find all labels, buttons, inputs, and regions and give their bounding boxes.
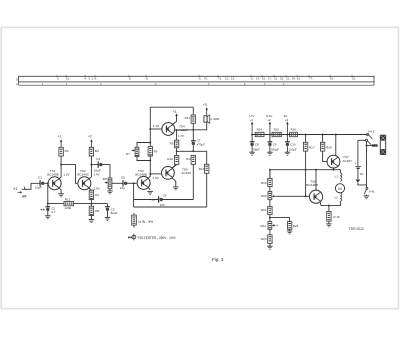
svg-text:K1: K1: [14, 187, 18, 191]
svg-text:L2: L2: [335, 196, 339, 200]
svg-text:K4 2: K4 2: [368, 130, 375, 134]
svg-text:R13: R13: [199, 167, 205, 171]
svg-text:POLYESTER - 250V - 10%: POLYESTER - 250V - 10%: [138, 236, 176, 240]
svg-text:21,: 21,: [286, 77, 290, 81]
svg-text:M: M: [338, 186, 341, 191]
svg-text:15,: 15,: [262, 77, 266, 81]
svg-text:10µ: 10µ: [120, 186, 125, 190]
svg-text:K41: K41: [369, 190, 375, 194]
svg-text:12,: 12,: [225, 77, 229, 81]
svg-text:R16: R16: [291, 128, 297, 132]
svg-text:C8: C8: [255, 143, 259, 147]
svg-text:4.1V: 4.1V: [153, 124, 159, 128]
svg-text:9V: 9V: [360, 172, 364, 176]
svg-text:+: +: [354, 162, 356, 166]
svg-text:R24: R24: [293, 224, 299, 228]
svg-text:4.7: 4.7: [51, 210, 56, 214]
svg-text:15,: 15,: [66, 77, 70, 81]
svg-text:6,: 6,: [199, 77, 202, 81]
svg-text:77,: 77,: [309, 77, 313, 81]
svg-text:AC128: AC128: [181, 171, 191, 175]
svg-text:1.4V: 1.4V: [93, 172, 99, 176]
svg-text:220k: 220k: [65, 206, 72, 210]
svg-text:16,: 16,: [330, 77, 334, 81]
svg-text:1.9V: 1.9V: [153, 176, 159, 180]
svg-text:10µF: 10µF: [94, 168, 101, 172]
svg-text:470µF: 470µF: [197, 142, 205, 146]
svg-text:R23: R23: [261, 237, 267, 241]
svg-text:L1: L1: [335, 174, 339, 178]
svg-text:C6: C6: [163, 193, 167, 197]
svg-text:+1: +1: [250, 118, 254, 122]
svg-text:16,: 16,: [297, 77, 301, 81]
svg-text:R18: R18: [326, 145, 332, 149]
svg-text:R22: R22: [260, 224, 266, 228]
svg-text:R21: R21: [261, 208, 267, 212]
svg-text:+2: +2: [267, 118, 271, 122]
svg-text:8,: 8,: [146, 77, 149, 81]
svg-text:71,: 71,: [218, 77, 222, 81]
svg-text:R17: R17: [309, 145, 315, 149]
svg-text:10µF: 10µF: [35, 186, 42, 190]
svg-text:R7: R7: [126, 152, 130, 156]
svg-text:C10: C10: [290, 143, 296, 147]
svg-text:C9: C9: [273, 143, 277, 147]
svg-text:R14: R14: [257, 128, 263, 132]
svg-text:TDR 2012: TDR 2012: [349, 227, 364, 231]
svg-text:R9: R9: [170, 141, 174, 145]
svg-text:1.7V: 1.7V: [178, 134, 184, 138]
svg-text:C4: C4: [96, 157, 100, 161]
svg-text:+3: +3: [173, 110, 177, 114]
svg-text:⅛ W - 5%: ⅛ W - 5%: [138, 220, 153, 224]
svg-text:4.7: 4.7: [152, 198, 156, 202]
svg-text:13,: 13,: [231, 77, 235, 81]
svg-text:56µF: 56µF: [253, 148, 260, 152]
svg-text:2.8V: 2.8V: [94, 187, 100, 191]
svg-text:76,: 76,: [204, 77, 208, 81]
svg-text:82µF: 82µF: [111, 211, 118, 215]
svg-text:R3: R3: [65, 149, 69, 153]
svg-text:3,: 3,: [57, 77, 60, 81]
svg-text:BC149B: BC149B: [47, 173, 59, 177]
svg-text:BC148B: BC148B: [135, 173, 147, 177]
svg-text:14,: 14,: [256, 77, 260, 81]
svg-text:220: 220: [160, 203, 165, 207]
svg-text:R12: R12: [186, 157, 192, 161]
svg-text:Fig. 3: Fig. 3: [212, 257, 224, 262]
svg-text:5,: 5,: [251, 77, 254, 81]
svg-text:R19: R19: [261, 181, 267, 185]
svg-text:21,: 21,: [274, 77, 278, 81]
svg-text:R5: R5: [95, 209, 99, 213]
svg-text:R10: R10: [167, 157, 173, 161]
svg-text:R15: R15: [274, 128, 280, 132]
svg-text:C1: C1: [38, 175, 42, 179]
svg-text:25,: 25,: [280, 77, 284, 81]
svg-text:R4: R4: [95, 149, 99, 153]
svg-text:R1: R1: [95, 193, 99, 197]
svg-text:R6: R6: [154, 149, 158, 153]
svg-text:6,: 6,: [95, 77, 98, 81]
svg-text:+2: +2: [88, 135, 92, 139]
svg-text:R12: R12: [65, 197, 71, 201]
svg-text:100µF: 100µF: [289, 148, 297, 152]
svg-text:100µF: 100µF: [271, 148, 279, 152]
svg-text:23,: 23,: [352, 77, 356, 81]
svg-text:BC149C: BC149C: [77, 173, 89, 177]
svg-text:4,: 4,: [85, 77, 88, 81]
svg-text:R11: R11: [185, 116, 191, 120]
svg-text:1.2V: 1.2V: [63, 172, 69, 176]
svg-text:+1: +1: [58, 135, 62, 139]
svg-text:AC187: AC187: [342, 159, 352, 163]
svg-text:+3: +3: [285, 118, 289, 122]
svg-text:R 15: R 15: [333, 215, 340, 219]
svg-text:17,: 17,: [268, 77, 272, 81]
svg-text:R20: R20: [261, 194, 267, 198]
svg-text:5,: 5,: [129, 77, 132, 81]
svg-text:24,: 24,: [292, 77, 296, 81]
svg-text:R8: R8: [103, 177, 107, 181]
svg-text:+3: +3: [203, 103, 207, 107]
svg-text:C5: C5: [121, 176, 125, 180]
